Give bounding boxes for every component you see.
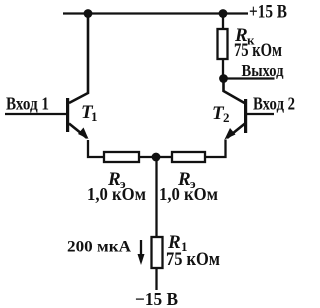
svg-text:Вход 1: Вход 1	[6, 94, 49, 114]
wire: Re left to T1 emitter	[88, 140, 104, 157]
wire: Rk bottom to output node	[222, 59, 224, 79]
resistor Re right	[172, 152, 205, 162]
svg-text:Вход 2: Вход 2	[253, 94, 295, 114]
wire: output node down to T2 collector	[224, 79, 245, 104]
current direction arrow	[140, 240, 142, 258]
wire: rail to Rk top	[222, 14, 224, 30]
node: junction of Rk with +15V rail	[219, 9, 228, 18]
svg-text:+15 В: +15 В	[249, 2, 287, 23]
transistor T2 emitter with arrow	[227, 124, 245, 139]
transistor T2 base bar	[244, 99, 247, 133]
wire: center node to Re left	[139, 156, 156, 158]
wire: center node down to R1	[155, 157, 157, 237]
svg-text:2: 2	[223, 110, 230, 125]
svg-text:1,0 кОм: 1,0 кОм	[159, 184, 218, 204]
resistor Rk	[218, 29, 228, 59]
wire: T1 collector up to rail	[69, 14, 88, 104]
wire: T2 emitter down and left to Re right	[205, 140, 226, 158]
resistor Re left	[104, 152, 139, 162]
wire: Re right to center node	[156, 156, 172, 158]
node: junction of T1 collector with +15V rail	[84, 9, 93, 18]
svg-text:1: 1	[91, 109, 98, 124]
svg-text:200 мкА: 200 мкА	[67, 239, 131, 256]
node: output node (collector of T2)	[219, 74, 228, 83]
svg-text:1,0 кОм: 1,0 кОм	[87, 184, 146, 204]
svg-text:Выход: Выход	[242, 61, 284, 80]
wire: output lead	[224, 77, 275, 79]
wire: R1 bottom to -15V	[155, 268, 157, 290]
svg-text:75 кОм: 75 кОм	[234, 40, 282, 61]
svg-text:−15 В: −15 В	[135, 289, 178, 308]
wire: T2 base lead to input 2	[246, 113, 274, 115]
node: common emitter node	[152, 153, 161, 162]
wire: T1 base lead from input 1	[5, 113, 66, 115]
transistor T1 emitter with arrow	[69, 124, 87, 139]
svg-text:75 кОм: 75 кОм	[166, 249, 220, 270]
transistor T1 base bar	[66, 98, 69, 132]
resistor R1	[152, 237, 163, 268]
wire: +15V top rail	[63, 12, 248, 14]
